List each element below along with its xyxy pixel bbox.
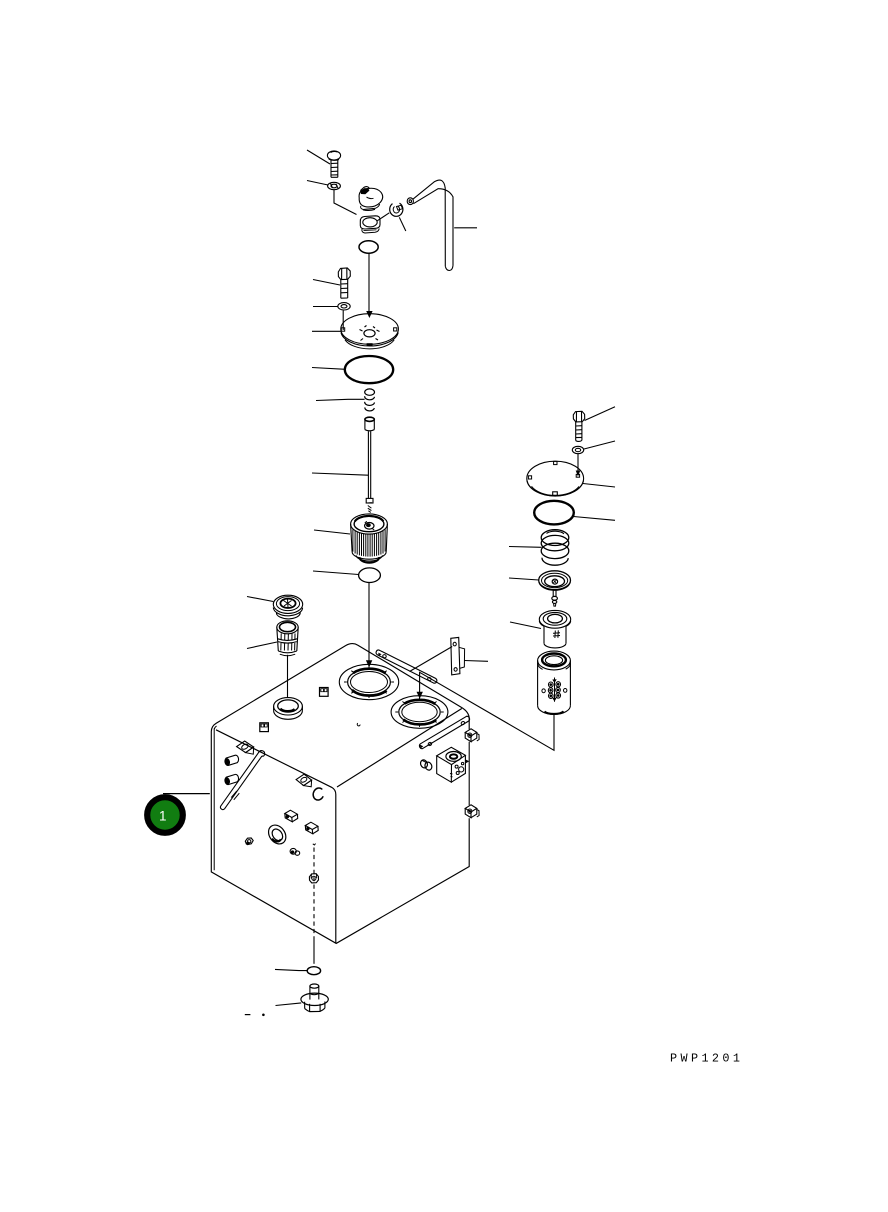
leader line to spring 2 xyxy=(509,546,542,549)
leader line to bolt B2 xyxy=(313,280,340,286)
dashed line on front face xyxy=(313,848,315,940)
filler opening ring xyxy=(274,698,303,715)
lock washer W1 xyxy=(328,182,341,189)
spring 2 xyxy=(541,530,569,546)
clamp plate 1 xyxy=(237,741,254,753)
assembly line neck to collar xyxy=(377,213,389,221)
leader line to bolt B1 xyxy=(307,150,330,164)
flanged opening 1 xyxy=(339,664,398,699)
svg-text:1: 1 xyxy=(159,809,167,824)
leader line to large O-ring xyxy=(312,368,346,370)
strip rail 2 xyxy=(419,716,469,749)
C hook xyxy=(313,788,323,800)
leader line to drain O-ring xyxy=(275,969,307,970)
hex plug 1 xyxy=(225,755,238,765)
tank body outline xyxy=(211,644,469,732)
leader line to valve cap xyxy=(509,578,539,580)
filler neck xyxy=(360,216,380,229)
leader line to O-ring 2 xyxy=(574,517,616,521)
leader line to lock washer W1 xyxy=(307,181,328,186)
clamp plate 2 xyxy=(296,774,312,785)
tiny mark on top face xyxy=(357,723,360,726)
bolt B2 xyxy=(338,268,350,280)
washer W3 xyxy=(572,446,583,453)
leader line to filter element xyxy=(314,530,350,534)
line cartridge to opening 2 xyxy=(420,672,554,750)
center line O-ring to cover plate xyxy=(368,254,370,314)
center line plug to opening 1 xyxy=(368,583,370,662)
block fitting B xyxy=(285,810,298,817)
svg-text:PWP1201: PWP1201 xyxy=(670,1052,743,1066)
leader line from elbow xyxy=(454,227,477,229)
square fitting F1 xyxy=(465,729,477,736)
leader line from bracket xyxy=(465,660,489,663)
hex nut on dashed line xyxy=(309,874,318,883)
spring small xyxy=(365,389,375,395)
leader line to strainer xyxy=(247,642,277,649)
arrowhead opening 1 xyxy=(366,660,372,667)
arrowhead on cover plate xyxy=(366,311,372,318)
cover plate 2 xyxy=(527,461,584,496)
leader line to cover plate 1 xyxy=(312,330,341,332)
valve block xyxy=(437,747,466,764)
O-ring small top xyxy=(359,241,378,253)
arrowhead plate 2 xyxy=(576,471,581,477)
breather cap xyxy=(359,188,383,207)
leader line to spring xyxy=(316,399,365,400)
leader line to filler cap xyxy=(247,597,273,602)
square fitting F2 xyxy=(465,805,477,812)
bracket pointer line xyxy=(410,647,453,672)
line washer W3 to plate 2 xyxy=(577,454,579,474)
leader line to washer W2 xyxy=(313,306,338,308)
suction strainer xyxy=(277,621,298,634)
leader line to plug ellipse xyxy=(313,571,359,575)
hex nut A xyxy=(245,838,253,845)
leader line from callout 1 xyxy=(163,793,210,795)
top plate symbol 1 xyxy=(320,688,329,697)
filter element xyxy=(351,514,388,534)
line washer W2 to plate hole xyxy=(342,311,344,331)
filter cartridge xyxy=(538,651,571,670)
bolt B1 xyxy=(327,151,340,160)
elbow breather pipe xyxy=(407,198,413,205)
arrowhead opening 2 xyxy=(417,692,423,699)
drain plug xyxy=(309,986,311,999)
collar ring xyxy=(390,203,403,216)
ring fitting near valve block xyxy=(419,759,428,769)
bushing xyxy=(539,610,570,628)
flanged opening 2 xyxy=(391,696,448,729)
block fitting C xyxy=(305,822,318,829)
leader line to bushing xyxy=(510,622,541,629)
cover plate 1 xyxy=(341,314,399,345)
large O-ring xyxy=(345,356,393,383)
stray dash marks xyxy=(245,1014,251,1016)
boss ring on front face xyxy=(265,822,289,848)
filler cap xyxy=(273,595,302,613)
rod xyxy=(365,417,374,421)
O-ring 2 xyxy=(534,501,574,525)
leader line to drain plug xyxy=(276,1003,302,1006)
hex fitting B xyxy=(290,848,296,854)
hex plug 2 xyxy=(225,774,238,784)
green callout circle 1 xyxy=(147,797,183,833)
line to drain O-ring xyxy=(313,940,315,964)
leader line to bolt B3 xyxy=(585,407,616,421)
right face line xyxy=(468,742,470,805)
leader line to washer W3 xyxy=(584,441,615,449)
mount bracket xyxy=(451,637,460,675)
top plate symbol 2 xyxy=(260,723,269,732)
line strainer to filler opening xyxy=(287,655,289,698)
handle bar xyxy=(220,753,262,809)
leader line to cover plate 2 xyxy=(583,484,615,488)
relief valve cap xyxy=(539,571,571,590)
bolt B3 xyxy=(573,411,584,422)
drain O-ring xyxy=(307,967,320,975)
tiny tick on front face xyxy=(313,844,316,845)
plug ellipse xyxy=(359,568,381,583)
valve stem xyxy=(552,590,554,597)
washer W2 xyxy=(338,303,350,310)
strip rail 1 xyxy=(376,650,437,683)
line from washer W1 to breather mount xyxy=(334,190,357,215)
leader line to rod xyxy=(312,473,368,475)
line from collar to neck area xyxy=(399,217,406,231)
